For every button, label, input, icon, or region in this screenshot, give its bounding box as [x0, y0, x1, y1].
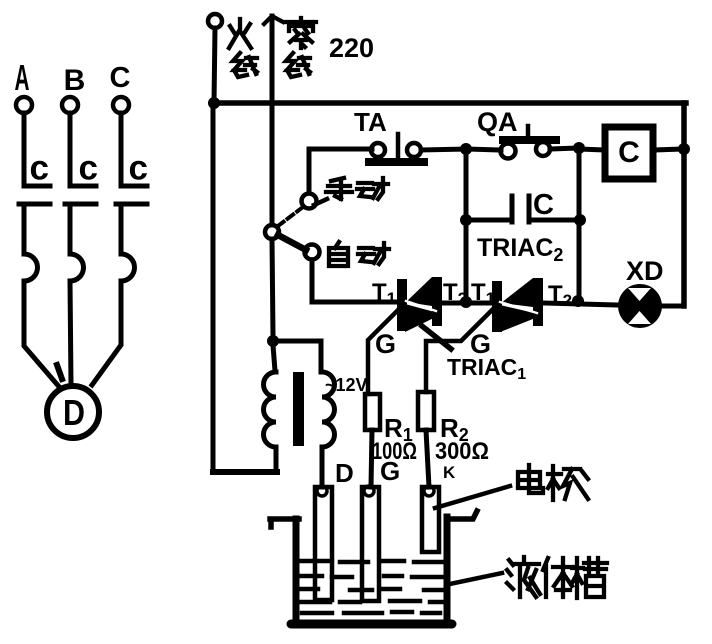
- svg-text:TRIAC2: TRIAC2: [477, 234, 563, 265]
- wire TA to node: [421, 149, 466, 150]
- wire right branch vertical: [577, 148, 582, 301]
- svg-text:C: C: [533, 189, 554, 221]
- lamp XD white top: [628, 288, 651, 301]
- label zidong (auto): [329, 242, 389, 266]
- primary bottom lead: [274, 447, 279, 472]
- wire phase B to motor: [70, 281, 71, 384]
- tank leader line: [450, 573, 502, 584]
- tank left rim: [270, 519, 299, 527]
- wire phase C to motor: [92, 281, 121, 385]
- svg-text:C: C: [618, 136, 640, 169]
- QA contact right: [536, 142, 550, 156]
- node lamp line: [572, 295, 584, 307]
- label huoxian (live): [229, 19, 257, 77]
- electrode G rod: [362, 487, 379, 601]
- QA stem: [526, 126, 531, 136]
- TA contact right: [407, 143, 421, 157]
- TA stem: [396, 134, 401, 158]
- wire left branch vertical lower: [464, 220, 469, 302]
- node TA-QA: [460, 143, 472, 155]
- lamp XD white bottom: [628, 311, 651, 324]
- node QA-C: [573, 142, 585, 154]
- stray gate stroke: [422, 326, 451, 349]
- auto contact: [305, 245, 320, 260]
- wire node down left: [464, 149, 469, 220]
- label liquid tank: [507, 557, 607, 598]
- selector dashed arm to manual: [278, 207, 303, 226]
- electrode D rod: [315, 487, 332, 600]
- thermal element phase A: [24, 254, 38, 281]
- motor D circle: [47, 386, 99, 438]
- selector blade to auto: [278, 235, 306, 250]
- liquid dashes row5: [302, 612, 440, 613]
- electrode D terminal: [317, 486, 327, 496]
- svg-text:TRIAC1: TRIAC1: [447, 354, 526, 383]
- transformer core: [293, 372, 304, 446]
- manual contact: [302, 194, 317, 209]
- resistor R1: [365, 394, 380, 430]
- node between triacs: [460, 296, 472, 308]
- secondary bottom lead: [320, 447, 325, 487]
- wire node to secondary top: [273, 341, 321, 372]
- terminal B: [62, 97, 78, 113]
- QA bridge bar: [503, 136, 556, 144]
- tank bottom: [291, 620, 452, 629]
- triac U2 body: [397, 277, 442, 332]
- liquid dashes row4: [300, 601, 443, 602]
- triac U1 body: [492, 278, 543, 332]
- transformer secondary winding: [322, 372, 335, 447]
- thermal element phase C: [121, 254, 135, 281]
- selector pivot: [265, 225, 279, 239]
- wire phase A upper: [24, 113, 50, 186]
- top bus wire: [212, 100, 686, 106]
- svg-text:~12V: ~12V: [325, 375, 368, 395]
- tank right rim: [447, 511, 477, 519]
- electrode leader line: [435, 486, 510, 508]
- svg-text:c: c: [129, 149, 148, 188]
- label dianji (electrode): [518, 465, 588, 500]
- terminal A: [16, 97, 32, 113]
- tank left wall: [293, 519, 300, 623]
- contact C left side: [466, 196, 512, 222]
- wire auto to triac T1: [312, 260, 398, 302]
- wire node to QA: [466, 149, 501, 150]
- electrode E terminal: [424, 486, 434, 496]
- svg-text:TA: TA: [354, 107, 387, 137]
- svg-text:C: C: [110, 62, 131, 94]
- svg-text:B: B: [64, 64, 86, 97]
- thermal element phase B: [70, 254, 84, 281]
- selector arm tail: [314, 199, 327, 205]
- wire U2 T2 to node: [442, 301, 492, 306]
- junction bus-live: [208, 97, 220, 109]
- triac U2 gate wire: [368, 311, 397, 394]
- contact C phase B lower: [65, 204, 96, 254]
- label shoudong (manual): [326, 178, 388, 199]
- node transformer top: [267, 335, 279, 347]
- triac U2 white separator: [406, 301, 436, 311]
- wire lamp to rail: [660, 304, 684, 309]
- node rail top: [678, 143, 690, 155]
- svg-text:220: 220: [329, 33, 374, 63]
- neutral wire vertical: [272, 16, 273, 336]
- svg-text:A: A: [15, 57, 30, 98]
- primary top lead: [273, 345, 275, 371]
- neutral arrow top: [264, 16, 283, 24]
- triac U1 gate wire: [426, 310, 492, 392]
- svg-text:c: c: [30, 149, 49, 188]
- electrode E rod: [422, 487, 439, 552]
- wire U1 T2 to lamp: [543, 303, 619, 305]
- svg-text:G: G: [375, 329, 396, 359]
- wire node to contactor box: [579, 149, 605, 150]
- triac U1 white separator: [500, 302, 537, 313]
- contact C phase A lower: [19, 204, 50, 254]
- resistor R2 bottom lead: [426, 430, 429, 487]
- wire phase A to motor: [24, 281, 61, 389]
- wire QA to node: [550, 148, 579, 149]
- right rail wire: [681, 103, 687, 306]
- wire phase C upper: [121, 113, 147, 186]
- svg-text:QA: QA: [477, 107, 518, 137]
- wire box to rail: [653, 149, 684, 150]
- tank right wall: [444, 517, 451, 624]
- svg-text:300Ω: 300Ω: [435, 438, 489, 465]
- label lingxian (neutral): [286, 18, 316, 77]
- tick mark near motor: [57, 365, 62, 379]
- QA contact left: [501, 144, 516, 159]
- contactor coil C box: [605, 127, 653, 179]
- live terminal: [208, 14, 222, 28]
- live wire vertical: [213, 28, 215, 470]
- lamp XD circle: [618, 284, 662, 328]
- contact C right side: [529, 196, 580, 222]
- wire transformer bottom: [213, 469, 277, 475]
- node right contact row: [574, 214, 586, 226]
- TA contact left: [371, 143, 385, 157]
- svg-text:D: D: [63, 392, 85, 433]
- node left contact row: [460, 214, 472, 226]
- transformer primary winding: [264, 372, 277, 447]
- svg-text:K: K: [443, 463, 456, 482]
- electrode G terminal: [364, 486, 374, 496]
- svg-text:c: c: [79, 149, 98, 188]
- svg-text:G: G: [380, 456, 400, 486]
- wire manual to TA: [309, 149, 372, 193]
- resistor R1 bottom lead: [371, 430, 372, 487]
- liquid dashes row3: [301, 589, 443, 590]
- liquid surface dashes: [301, 561, 444, 562]
- TA bridge bar: [369, 158, 424, 166]
- contact C phase C lower: [116, 204, 147, 254]
- svg-text:D: D: [335, 458, 354, 488]
- liquid dashes row2: [300, 576, 443, 577]
- wire phase B upper: [70, 113, 96, 186]
- terminal C: [113, 97, 129, 113]
- resistor R2: [418, 392, 434, 430]
- svg-text:XD: XD: [626, 256, 664, 286]
